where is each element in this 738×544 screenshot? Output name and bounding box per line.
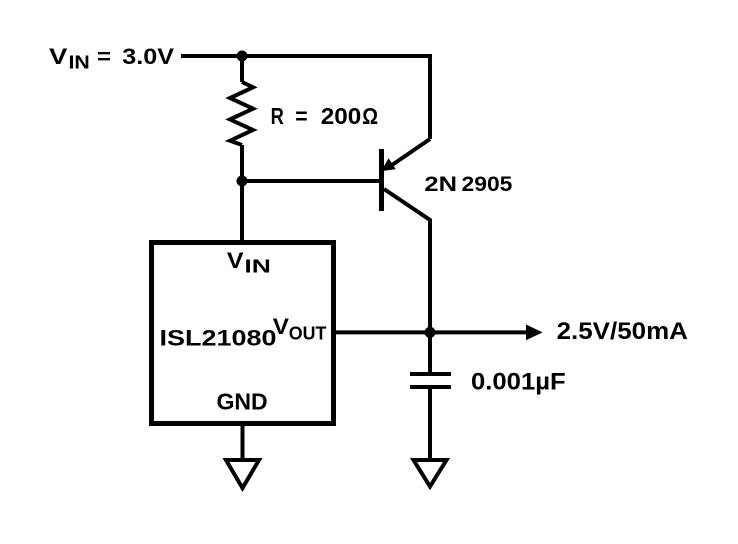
transistor Q1 emitter diagonal	[392, 139, 430, 165]
svg-text:200: 200	[321, 103, 362, 129]
wire: base node to transistor base	[242, 179, 380, 183]
ground symbol (capacitor)	[414, 460, 447, 487]
svg-text:R: R	[271, 103, 284, 129]
svg-text:IN: IN	[244, 257, 271, 277]
capacitor C1 top plate	[410, 372, 451, 376]
svg-text:=: =	[295, 103, 307, 129]
svg-text:V: V	[273, 314, 290, 339]
svg-text:=: =	[97, 44, 111, 69]
wire: capacitor bottom lead to ground	[428, 389, 432, 458]
resistor R1 zigzag body	[230, 82, 253, 145]
wire: VOUT output line	[336, 330, 529, 334]
junction: base node	[237, 176, 248, 187]
svg-text:OUT: OUT	[289, 323, 327, 343]
svg-text:IN: IN	[69, 52, 90, 72]
junction: output node	[425, 327, 436, 338]
label VIN = 3.0V	[49, 44, 174, 72]
wire: output node to capacitor top plate	[428, 332, 432, 372]
wire: VIN rail from label to top-right corner	[181, 54, 430, 58]
pin label VIN (inside box top)	[227, 248, 271, 277]
wire: IC GND pin to ground	[241, 424, 245, 458]
svg-text:V: V	[49, 44, 68, 69]
svg-text:2905: 2905	[462, 172, 513, 196]
wire: emitter drop from VIN rail	[428, 54, 432, 139]
junction: VIN rail / resistor top	[237, 51, 248, 62]
svg-text:0.001µF: 0.001µF	[471, 369, 566, 396]
wire: resistor top lead	[240, 56, 244, 82]
svg-text:2N: 2N	[424, 172, 457, 196]
transistor Q1 base bar	[379, 149, 384, 211]
svg-text:Ω: Ω	[362, 103, 378, 129]
transistor Q1 emitter arrowhead (PNP)	[381, 158, 396, 171]
transistor Q1 collector diagonal	[384, 189, 430, 332]
IC U1 ISL21080 body	[152, 243, 334, 424]
svg-text:GND: GND	[217, 388, 268, 414]
ground symbol (IC GND)	[226, 460, 259, 488]
svg-text:2.5V/50mA: 2.5V/50mA	[557, 318, 688, 345]
arrowhead: output	[526, 325, 543, 341]
capacitor C1 bottom plate	[410, 385, 451, 389]
svg-text:V: V	[227, 248, 244, 273]
svg-text:3.0V: 3.0V	[122, 44, 174, 69]
pin label VOUT (inside box right)	[273, 314, 327, 344]
label 2N2905	[424, 172, 512, 196]
svg-text:ISL21080: ISL21080	[160, 325, 277, 350]
label R = 200ohm	[271, 103, 378, 129]
wire: resistor bottom lead to box VIN pin	[240, 145, 244, 241]
